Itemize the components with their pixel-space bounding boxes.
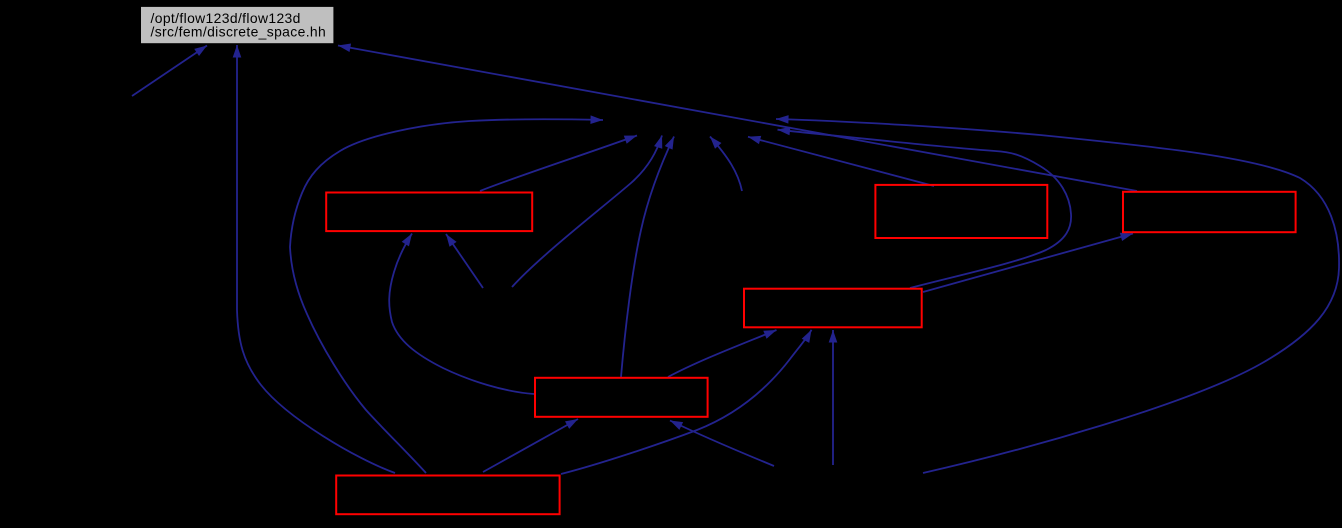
edge B_Ep->B_A: [389, 234, 534, 395]
node root: [141, 6, 334, 43]
node B_C: [336, 476, 559, 515]
edge N5->N1: [710, 137, 742, 192]
svg-text:/src/fem/discrete_space.hh: /src/fem/discrete_space.hh: [151, 24, 327, 40]
edge B_Ep->N1: [621, 137, 674, 378]
edge B_E->N1: [748, 137, 934, 186]
edge N3->B_D: [832, 330, 834, 465]
edge N4->B_A: [446, 234, 483, 288]
edge B_Ep->B_D: [668, 330, 777, 377]
edge B_D->N1: [778, 130, 1072, 288]
node B_D: [744, 289, 922, 328]
node B_F: [1123, 192, 1296, 232]
edge B_C->N1: [290, 119, 603, 473]
edge N4->N1: [512, 136, 662, 288]
edge N2->root: [132, 46, 207, 97]
edge B_F->root: [338, 46, 1137, 192]
edge N3->N1: [776, 119, 1339, 473]
edge B_C->root: [237, 45, 395, 473]
edge B_C->B_D: [561, 330, 812, 474]
node B_Ep: [535, 378, 708, 417]
node B_E: [875, 185, 1047, 238]
edge B_C->B_Ep: [483, 419, 578, 472]
edge N3->B_Ep: [670, 421, 774, 467]
edge B_D->B_F: [923, 234, 1133, 293]
edge B_A->N1: [480, 136, 637, 192]
node B_A: [326, 193, 532, 232]
